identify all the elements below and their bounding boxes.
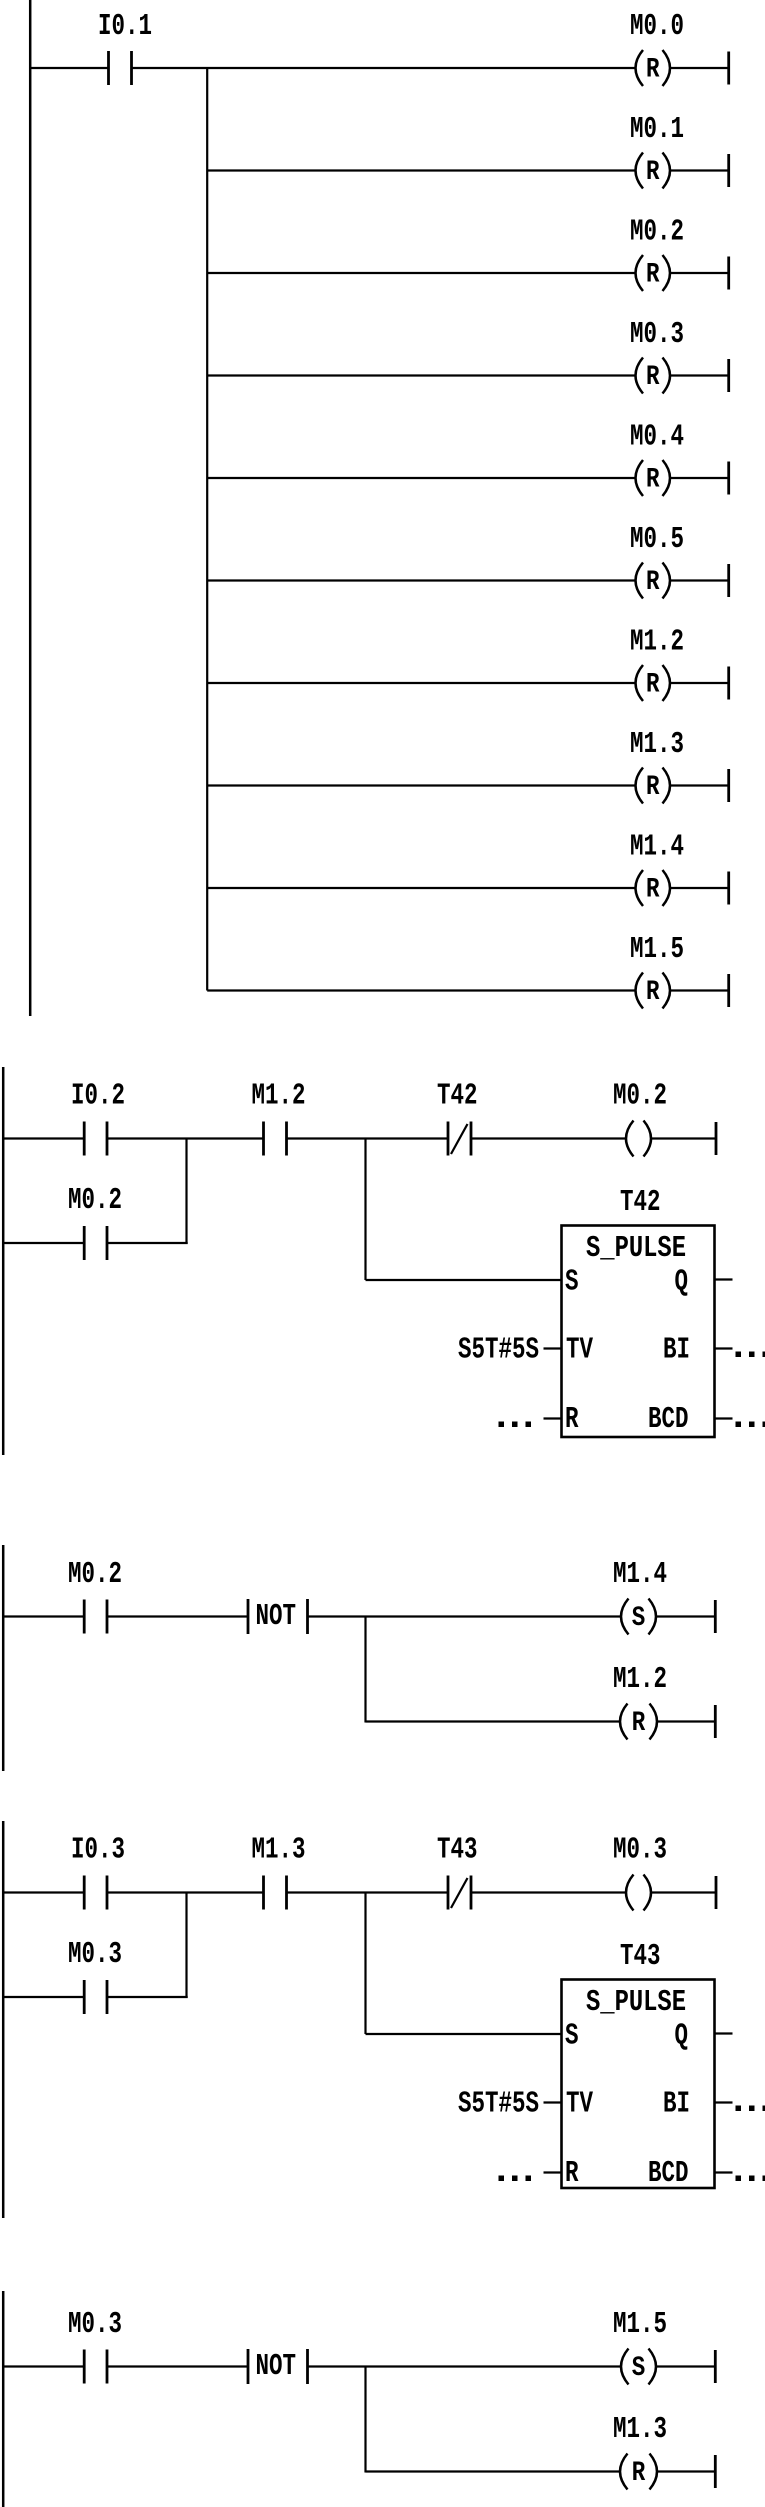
branch vertical wire seal-in (185, 1139, 187, 1245)
svg-text:M1.3: M1.3 (613, 2413, 667, 2447)
svg-text:S: S (632, 2352, 646, 2384)
svg-text:R: R (646, 976, 660, 1008)
wire coil M0.2 to right rail (670, 272, 729, 274)
svg-text:M0.2: M0.2 (68, 1184, 122, 1218)
svg-text:M1.4: M1.4 (630, 831, 684, 865)
svg-text:M0.3: M0.3 (613, 1834, 667, 1868)
branch vertical wire to timer S input (364, 1139, 366, 1281)
svg-text:I0.1: I0.1 (98, 10, 152, 44)
wire coil M0.3 to right rail (670, 374, 729, 376)
wire contact M1.3 to contact T43 (junction at x=365.5) (287, 1891, 449, 1893)
svg-text:M1.4: M1.4 (613, 1558, 667, 1592)
right rail rung 1 (715, 1122, 718, 1155)
wire Q output stub (716, 2032, 733, 2034)
svg-text:M1.3: M1.3 (252, 1834, 306, 1868)
contact M0.2 seal-in (NO) (84, 1226, 107, 1260)
wire NOT to coil M1.4 (junction at x=365.5) (308, 1615, 622, 1617)
coil M1.4 (R) (636, 870, 671, 906)
wire coil M0.1 to right rail (670, 169, 729, 171)
coil M1.4 (S) (621, 1599, 656, 1635)
coil M0.0 (R) (636, 50, 671, 86)
coil M1.5 (R) (636, 973, 671, 1009)
wire BI output stub (716, 1347, 733, 1349)
right rail rung 5 (727, 462, 730, 495)
network left power rail (2, 1545, 5, 1771)
wire BCD output stub (716, 2171, 733, 2173)
wire coil M1.4 to right rail (670, 887, 729, 889)
right rail rung 3 (727, 257, 730, 290)
coil M0.2 ( ) (626, 1121, 651, 1157)
svg-text:M0.3: M0.3 (68, 1938, 122, 1972)
wire coil M1.2 to right rail (670, 682, 729, 684)
wire contact I0.1 to coil M0.0 (junction at branch x=207) (132, 67, 637, 69)
wire branch to coil M1.3 (207, 784, 636, 786)
svg-text:M0.2: M0.2 (630, 216, 684, 250)
wire rail to contact I0.1 (29, 67, 109, 69)
coil M1.2 (R) (620, 1704, 657, 1740)
coil M0.5 (R) (636, 563, 671, 599)
BCD output placeholder dots (736, 1422, 765, 1428)
svg-text:M0.3: M0.3 (630, 318, 684, 352)
svg-text:Q: Q (675, 1266, 688, 1300)
coil M1.5 (S) (621, 2349, 656, 2385)
right rail rung 6 (727, 564, 730, 597)
coil M1.3 (R) (636, 768, 671, 804)
wire coil M1.4 to right rail (656, 1615, 715, 1617)
svg-text:M0.2: M0.2 (68, 1558, 122, 1592)
wire branch to coil M0.3 (207, 374, 636, 376)
right rail rung 2 (727, 154, 730, 187)
wire coil M0.3 to right rail (651, 1891, 716, 1893)
wire R input stub (544, 1417, 562, 1419)
svg-text:M0.2: M0.2 (613, 1080, 667, 1114)
svg-text:BI: BI (663, 1334, 690, 1368)
svg-text:S_PULSE: S_PULSE (586, 1986, 686, 2020)
svg-text:S5T#5S: S5T#5S (458, 2088, 539, 2122)
right rail rung 4 (727, 359, 730, 392)
right rail rung 2 (714, 2455, 717, 2488)
svg-text:M0.1: M0.1 (630, 113, 684, 147)
BI output placeholder dots (736, 2106, 765, 2112)
wire contact I0.2 to contact M1.2 (junction at x=186.5) (107, 1137, 264, 1139)
wire coil M1.5 to right rail (656, 2365, 715, 2367)
wire coil M1.3 to right rail (657, 2470, 715, 2472)
wire contact T42 to coil M0.2 (471, 1137, 627, 1139)
wire contact M0.2 to branch junction (107, 1242, 188, 1244)
wire branch to coil M0.4 (207, 477, 636, 479)
svg-text:S: S (632, 1602, 646, 1634)
svg-text:R: R (646, 361, 660, 393)
contact M1.2 (NO) (264, 1122, 287, 1156)
svg-text:S: S (565, 2020, 578, 2054)
svg-text:M1.5: M1.5 (613, 2308, 667, 2342)
contact I0.1 (NO) (109, 51, 132, 85)
svg-text:R: R (646, 156, 660, 188)
svg-text:M1.2: M1.2 (613, 1663, 667, 1697)
wire Q output stub (716, 1278, 733, 1280)
wire branch to coil M0.1 (207, 169, 636, 171)
svg-text:R: R (565, 2157, 579, 2191)
svg-text:TV: TV (566, 1334, 594, 1368)
wire contact M0.2 to NOT (107, 1615, 248, 1617)
wire contact M1.2 to contact T42 (junction at x=365.5) (287, 1137, 449, 1139)
right rail rung 7 (727, 667, 730, 700)
branch vertical wire to reset coil (364, 1617, 366, 1723)
svg-text:R: R (646, 771, 660, 803)
wire branch to coil M0.5 (207, 579, 636, 581)
svg-text:M1.5: M1.5 (630, 933, 684, 967)
right rail rung 1 (714, 2350, 717, 2383)
svg-text:Q: Q (675, 2020, 688, 2054)
svg-text:NOT: NOT (256, 1600, 297, 1634)
wire branch to coil M0.2 (207, 272, 636, 274)
wire coil M0.4 to right rail (670, 477, 729, 479)
svg-text:BCD: BCD (648, 2157, 689, 2191)
network left power rail (2, 1067, 5, 1455)
wire rail to contact M0.2 (2, 1615, 84, 1617)
wire to timer S input (366, 2033, 562, 2035)
svg-text:I0.3: I0.3 (71, 1834, 125, 1868)
svg-text:TV: TV (566, 2088, 594, 2122)
NOT element (248, 2349, 308, 2384)
wire coil M1.5 to right rail (670, 989, 729, 991)
svg-text:M0.3: M0.3 (68, 2308, 122, 2342)
wire TV input stub (544, 1347, 562, 1349)
svg-text:M1.3: M1.3 (630, 728, 684, 762)
svg-text:I0.2: I0.2 (71, 1080, 125, 1114)
wire rail to contact I0.2 (2, 1137, 84, 1139)
wire contact M0.3 to NOT (107, 2365, 248, 2367)
wire BI output stub (716, 2101, 733, 2103)
contact I0.2 (NO) (84, 1122, 107, 1156)
network 1 left power rail (29, 0, 32, 1016)
right rail rung 1 (727, 52, 730, 85)
wire branch to coil M1.3 (366, 2470, 621, 2472)
BCD output placeholder dots (736, 2176, 765, 2182)
right rail rung 10 (727, 974, 730, 1007)
right rail rung 9 (727, 872, 730, 905)
svg-text:R: R (632, 2457, 646, 2489)
svg-text:BI: BI (663, 2088, 690, 2122)
svg-text:R: R (646, 873, 660, 905)
wire branch to coil M1.4 (207, 887, 636, 889)
svg-text:BCD: BCD (648, 1403, 689, 1437)
coil M0.4 (R) (636, 460, 671, 496)
wire to timer S input (366, 1279, 562, 1281)
contact M1.3 (NO) (264, 1876, 287, 1910)
wire rail to contact M0.2 (2, 1242, 84, 1244)
wire coil M1.2 to right rail (657, 1720, 715, 1722)
svg-text:R: R (632, 1707, 646, 1739)
svg-text:M1.2: M1.2 (252, 1080, 306, 1114)
svg-text:M0.5: M0.5 (630, 523, 684, 557)
wire NOT to coil M1.5 (junction at x=365.5) (308, 2365, 622, 2367)
timer T42 S_PULSE box (562, 1226, 715, 1438)
svg-text:T42: T42 (437, 1080, 478, 1114)
wire contact M0.3 to branch junction (107, 1996, 188, 1998)
svg-text:R: R (565, 1403, 579, 1437)
wire coil M0.5 to right rail (670, 579, 729, 581)
right rail rung 1 (714, 1600, 717, 1633)
NOT element (248, 1599, 308, 1634)
wire coil M0.0 to right rail (670, 67, 729, 69)
network left power rail (2, 1821, 5, 2218)
network left power rail (2, 2291, 5, 2507)
contact I0.3 (NO) (84, 1876, 107, 1910)
coil M0.3 (R) (636, 358, 671, 394)
coil M1.3 (R) (620, 2454, 657, 2490)
wire branch to coil M1.2 (207, 682, 636, 684)
svg-text:S: S (565, 1266, 578, 1300)
svg-text:S_PULSE: S_PULSE (586, 1232, 686, 1266)
contact T43 (NC) (448, 1876, 471, 1910)
svg-text:NOT: NOT (256, 2350, 297, 2384)
wire contact I0.3 to contact M1.3 (junction at x=186.5) (107, 1891, 264, 1893)
right rail rung 8 (727, 769, 730, 802)
svg-text:R: R (646, 258, 660, 290)
svg-text:T43: T43 (437, 1834, 478, 1868)
contact M0.3 seal-in (NO) (84, 1980, 107, 2014)
wire branch to coil M1.5 (207, 989, 636, 991)
svg-text:M1.2: M1.2 (630, 626, 684, 660)
R input placeholder dots (499, 1422, 532, 1428)
svg-text:S5T#5S: S5T#5S (458, 1334, 539, 1368)
branch vertical wire to timer S input (364, 1893, 366, 2035)
svg-text:R: R (646, 566, 660, 598)
coil M0.2 (R) (636, 255, 671, 291)
wire branch to coil M1.2 (366, 1720, 621, 1722)
svg-text:M0.0: M0.0 (630, 10, 684, 44)
svg-text:R: R (646, 53, 660, 85)
right rail rung 1 (715, 1876, 718, 1909)
svg-text:T42: T42 (620, 1186, 661, 1220)
right rail rung 2 (714, 1705, 717, 1738)
timer T43 S_PULSE box (562, 1980, 715, 2189)
coil M0.1 (R) (636, 153, 671, 189)
branch vertical wire to reset coil (364, 2367, 366, 2473)
wire rail to contact M0.3 (2, 1996, 84, 1998)
coil M1.2 (R) (636, 665, 671, 701)
wire BCD output stub (716, 1417, 733, 1419)
contact M0.3 (NO) (84, 2350, 107, 2384)
contact M0.2 (NO) (84, 1600, 107, 1634)
R input placeholder dots (499, 2176, 532, 2182)
wire coil M0.2 to right rail (651, 1137, 716, 1139)
branch vertical wire seal-in (185, 1893, 187, 1999)
wire R input stub (544, 2171, 562, 2173)
svg-text:T43: T43 (620, 1940, 661, 1974)
BI output placeholder dots (736, 1352, 765, 1358)
wire coil M1.3 to right rail (670, 784, 729, 786)
svg-text:R: R (646, 463, 660, 495)
svg-text:R: R (646, 668, 660, 700)
wire rail to contact M0.3 (2, 2365, 84, 2367)
branch vertical wire from I0.1 to parallel reset coils (206, 68, 208, 991)
svg-text:M0.4: M0.4 (630, 421, 684, 455)
wire rail to contact I0.3 (2, 1891, 84, 1893)
coil M0.3 ( ) (626, 1875, 651, 1911)
contact T42 (NC) (448, 1122, 471, 1156)
wire contact T43 to coil M0.3 (471, 1891, 627, 1893)
wire TV input stub (544, 2101, 562, 2103)
